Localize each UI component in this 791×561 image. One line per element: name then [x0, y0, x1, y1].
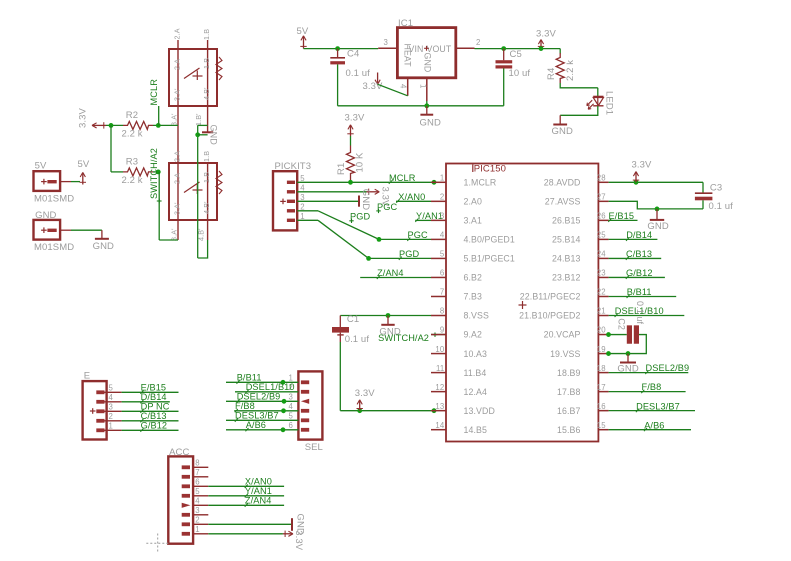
label IC1	[398, 18, 413, 29]
net label PGD (floating)	[349, 211, 370, 223]
svg-text:C1: C1	[347, 314, 359, 325]
svg-text:ACC: ACC	[169, 447, 189, 458]
svg-text:15.B6: 15.B6	[557, 425, 581, 435]
svg-text:24.B13: 24.B13	[552, 254, 580, 264]
svg-text:DSEL2/B9: DSEL2/B9	[237, 391, 281, 401]
value 0.1 uf	[345, 334, 370, 345]
svg-text:C/B13: C/B13	[626, 249, 652, 259]
PIC left pin names	[464, 178, 515, 435]
junction	[539, 46, 544, 51]
svg-text:4: 4	[440, 231, 445, 240]
svg-text:15: 15	[597, 421, 606, 430]
resistor R3	[123, 168, 153, 176]
svg-text:3: 3	[440, 212, 444, 221]
power 3.3V (rotated arrow)	[367, 187, 391, 208]
svg-text:16: 16	[597, 402, 606, 411]
net label Z/AN4	[245, 496, 272, 507]
pin numbers E	[109, 384, 114, 431]
PIC left pin stubs	[431, 182, 446, 429]
net label DSEL1/B10	[615, 306, 664, 317]
junction	[366, 256, 371, 261]
svg-text:PGC: PGC	[377, 202, 397, 212]
svg-text:20: 20	[597, 326, 606, 335]
svg-text:12: 12	[435, 383, 444, 392]
svg-text:Z/AN4: Z/AN4	[377, 268, 404, 278]
net label Y/AN1	[245, 486, 272, 497]
svg-text:SEL: SEL	[305, 442, 323, 453]
ground GND (rotated)	[359, 189, 371, 210]
pin wires SEL	[226, 382, 298, 430]
svg-text:0.1 uf: 0.1 uf	[346, 68, 371, 79]
net label G/B12	[626, 268, 653, 279]
wire R4 to LED1	[560, 83, 598, 96]
svg-text:F/B8: F/B8	[642, 382, 662, 392]
regulator IC1	[397, 28, 455, 78]
svg-text:23: 23	[597, 269, 606, 278]
wire	[609, 429, 691, 431]
junction	[655, 207, 660, 212]
junction	[606, 351, 611, 356]
value 2.2 k	[122, 175, 143, 186]
power 3.3V (VOUT)	[536, 28, 557, 48]
wire IC1 VOUT to 3.3V	[475, 48, 561, 50]
wire AVDD (pin28) to 3.3V / C3	[609, 182, 703, 193]
wire to R4	[559, 49, 561, 54]
svg-text:DSEL1/B10: DSEL1/B10	[246, 382, 295, 392]
svg-text:IC1: IC1	[398, 18, 413, 29]
junction	[335, 46, 340, 51]
net label MCLR	[389, 173, 416, 184]
svg-text:2: 2	[109, 412, 113, 421]
net label C/B13	[626, 249, 652, 260]
label C2 (rotated)	[617, 318, 627, 330]
svg-text:28: 28	[597, 174, 606, 183]
svg-text:GND: GND	[420, 118, 441, 129]
junction	[634, 180, 639, 185]
svg-text:2.A: 2.A	[173, 59, 182, 70]
svg-text:0.1 uf: 0.1 uf	[345, 334, 370, 345]
svg-text:5.B1/PGEC1: 5.B1/PGEC1	[464, 254, 515, 264]
svg-text:1: 1	[440, 174, 444, 183]
label M01SMD	[34, 194, 74, 205]
net label DESL3/B7	[636, 401, 680, 412]
svg-text:2.2 k: 2.2 k	[122, 129, 143, 140]
svg-text:R4: R4	[546, 68, 557, 80]
junction	[156, 170, 161, 175]
svg-text:B/B11: B/B11	[237, 372, 262, 382]
net label PGD	[399, 249, 420, 260]
svg-text:2: 2	[195, 516, 199, 525]
svg-text:PGD: PGD	[350, 211, 370, 221]
svg-text:0.1 uf: 0.1 uf	[709, 201, 734, 212]
value 0.1 uf	[709, 201, 734, 212]
power 3.3V (AVDD)	[632, 159, 653, 182]
connector SEL	[298, 371, 322, 439]
svg-text:GND: GND	[422, 53, 432, 73]
ground GND (AVSS)	[647, 209, 668, 232]
svg-text:20.VCAP: 20.VCAP	[544, 330, 581, 340]
junction	[424, 103, 429, 108]
svg-text:DP NC: DP NC	[141, 402, 170, 412]
wire PIC pin8 VSS to GND/C1	[340, 315, 431, 317]
svg-text:21: 21	[597, 307, 606, 316]
svg-text:1: 1	[195, 525, 199, 534]
wire	[609, 276, 665, 278]
net Y/AN1 wire (PIC pin3)	[415, 219, 431, 221]
resistor R1	[347, 146, 355, 183]
svg-text:9.A2: 9.A2	[464, 330, 483, 340]
svg-text:10.A3: 10.A3	[464, 349, 488, 359]
svg-text:10 K: 10 K	[355, 152, 366, 173]
svg-text:3.A': 3.A'	[170, 113, 179, 126]
pin wires E	[105, 392, 179, 430]
svg-text:18: 18	[597, 364, 606, 373]
svg-text:22: 22	[597, 288, 606, 297]
net X/AN0 wire	[208, 485, 284, 487]
junction	[348, 180, 353, 185]
svg-text:4.B': 4.B'	[202, 87, 211, 100]
svg-text:4.B0/PGED1: 4.B0/PGED1	[464, 235, 515, 245]
label R1 (rotated)	[336, 163, 347, 175]
svg-text:1.MCLR: 1.MCLR	[464, 178, 497, 188]
svg-text:2.A: 2.A	[173, 173, 182, 184]
capacitor C1	[332, 316, 349, 343]
net label Z/AN4	[377, 268, 404, 279]
wire	[106, 124, 123, 126]
net Z/AN4 wire	[208, 504, 284, 506]
ground GND symbol	[93, 230, 114, 252]
svg-text:3: 3	[195, 506, 199, 515]
svg-text:A/B6: A/B6	[644, 420, 664, 430]
net label PGC	[407, 230, 428, 241]
label C5	[510, 49, 522, 60]
pin labels S1	[170, 28, 212, 126]
pin numbers PICKIT3	[300, 174, 305, 221]
PIC right pin names	[519, 178, 580, 435]
svg-text:5V: 5V	[35, 161, 47, 172]
connector ACC	[168, 456, 193, 543]
svg-text:28.AVDD: 28.AVDD	[544, 178, 581, 188]
svg-text:X/AN0: X/AN0	[245, 477, 272, 487]
svg-text:5V: 5V	[297, 26, 309, 37]
net label F/B8	[641, 382, 661, 393]
svg-text:18.B9: 18.B9	[557, 368, 581, 378]
svg-text:E: E	[84, 371, 90, 382]
svg-text:3.3V: 3.3V	[293, 530, 304, 551]
connector 5V M01SMD	[34, 171, 61, 191]
junction	[377, 237, 382, 242]
svg-text:MCLR: MCLR	[389, 173, 416, 183]
svg-text:Z/AN4: Z/AN4	[245, 496, 272, 506]
net Y/AN1 wire	[208, 495, 284, 497]
svg-text:1.B: 1.B	[202, 58, 211, 69]
power 3.3V (left of R2)	[78, 107, 107, 128]
wire	[609, 315, 685, 317]
net X/AN0 wire (PIC pin2)	[396, 200, 431, 202]
PIC right pin numbers	[597, 174, 606, 430]
wire	[609, 295, 677, 297]
value 10 uf	[509, 68, 531, 79]
ground GND (LED1)	[552, 115, 573, 137]
label E	[84, 371, 90, 382]
value 0.1 uf (rotated)	[635, 301, 645, 325]
svg-text:SWITCH/A2: SWITCH/A2	[378, 333, 429, 343]
svg-text:13.VDD: 13.VDD	[464, 406, 495, 416]
wire PICKIT3 pin4 to 3.3V	[297, 191, 366, 193]
svg-text:F/B8: F/B8	[235, 401, 255, 411]
svg-text:2: 2	[476, 38, 480, 47]
junction	[156, 123, 161, 128]
svg-text:PGC: PGC	[408, 230, 428, 240]
wire C5 to gnd rail	[503, 69, 505, 106]
svg-text:G/B12: G/B12	[626, 268, 653, 278]
svg-text:3: 3	[109, 403, 113, 412]
wire	[609, 257, 662, 259]
power 3.3V (VDD)	[355, 388, 376, 411]
svg-text:A/B6: A/B6	[246, 420, 266, 430]
junction	[501, 46, 506, 51]
pin 1 IC1	[418, 78, 427, 101]
connector GND M01SMD	[34, 220, 61, 240]
label 5V	[35, 161, 47, 172]
wire	[609, 391, 686, 393]
junction	[109, 123, 114, 128]
svg-text:G/B12: G/B12	[141, 421, 168, 431]
wire PGD to PIC pin5	[369, 257, 431, 259]
svg-text:17.B8: 17.B8	[557, 387, 581, 397]
net labels SEL connector	[235, 372, 295, 431]
svg-text:13: 13	[435, 402, 444, 411]
svg-text:5: 5	[289, 412, 294, 421]
svg-text:E/B15: E/B15	[609, 211, 635, 221]
svg-text:24: 24	[597, 250, 606, 259]
svg-text:PICKIT3: PICKIT3	[275, 161, 312, 172]
svg-text:M01SMD: M01SMD	[34, 194, 74, 205]
svg-text:25: 25	[597, 231, 606, 240]
power 5V arrow	[78, 159, 90, 185]
label PICKIT3	[275, 161, 312, 172]
svg-text:R3: R3	[126, 157, 138, 168]
svg-text:4: 4	[399, 84, 408, 89]
svg-text:4: 4	[195, 497, 200, 506]
svg-text:C5: C5	[510, 49, 522, 60]
svg-text:GND: GND	[552, 126, 573, 137]
svg-text:5: 5	[195, 487, 200, 496]
label SEL	[305, 442, 323, 453]
svg-text:3.3V: 3.3V	[363, 81, 384, 92]
svg-text:GND: GND	[209, 125, 219, 146]
microcontroller PIC150 (U1)	[446, 164, 598, 442]
svg-text:10: 10	[435, 345, 444, 354]
junction	[432, 408, 437, 413]
svg-text:3.3V: 3.3V	[536, 28, 557, 39]
capacitor C3	[695, 193, 713, 209]
svg-text:27.AVSS: 27.AVSS	[545, 197, 581, 207]
power 5V (top)	[297, 26, 309, 49]
net label A/B6	[644, 420, 665, 431]
value 2.2 k	[122, 129, 143, 140]
svg-text:0.1 uf: 0.1 uf	[635, 301, 645, 325]
net labels E connector	[140, 383, 169, 432]
svg-text:22.B11/PGEC2: 22.B11/PGEC2	[520, 292, 581, 302]
net label SWITCH/A2 (PIC pin9)	[378, 333, 446, 344]
value 2.2 k (rotated)	[565, 60, 576, 81]
svg-text:D/B14: D/B14	[626, 230, 652, 240]
ground GND (VCAP/VSS)	[617, 354, 638, 375]
wire	[609, 219, 638, 221]
svg-text:Y/AN1: Y/AN1	[245, 486, 272, 496]
net MCLR wire (PICKIT3 pin5 to PIC pin1)	[297, 181, 431, 183]
svg-text:3.3V: 3.3V	[345, 113, 366, 124]
svg-text:6.B2: 6.B2	[464, 273, 483, 283]
svg-text:5: 5	[440, 250, 445, 259]
wire C2 to pin19 row	[609, 335, 647, 354]
wire LED1 to GND	[560, 106, 598, 115]
svg-text:2.A0: 2.A0	[464, 197, 483, 207]
ground GND (VSS)	[379, 316, 400, 338]
svg-text:6: 6	[440, 269, 444, 278]
wire PICKIT3 pin2 to PGC	[297, 211, 379, 240]
svg-text:19.VSS: 19.VSS	[550, 349, 580, 359]
wire PICKIT3 pin1 to PGD	[297, 220, 368, 258]
svg-text:GND: GND	[360, 189, 371, 210]
wire	[153, 124, 178, 126]
switch S1 (MCLR pushbutton)	[169, 49, 222, 106]
svg-text:1.B: 1.B	[202, 29, 211, 40]
svg-text:6: 6	[195, 478, 199, 487]
svg-text:GND: GND	[93, 241, 114, 252]
svg-text:HEAT: HEAT	[403, 44, 413, 68]
svg-text:26.B15: 26.B15	[552, 216, 580, 226]
wire 3.3V to R3	[111, 125, 123, 171]
junction	[357, 408, 362, 413]
svg-text:3.3V: 3.3V	[632, 159, 653, 170]
svg-text:8.VSS: 8.VSS	[464, 311, 489, 321]
net Z/AN4 wire (PIC pin6)	[360, 277, 431, 279]
ground GND (IC1)	[420, 106, 441, 129]
svg-text:C4: C4	[347, 48, 359, 59]
svg-text:6: 6	[289, 421, 293, 430]
pin labels S2	[170, 151, 212, 241]
svg-text:4.B': 4.B'	[202, 201, 211, 214]
switch S2 (SWITCH/A2 pushbutton)	[169, 163, 222, 220]
wire ACC pin1 to 3.3V	[208, 533, 283, 535]
wire PICKIT3 pin3 to GND	[297, 200, 358, 202]
label PIC150	[473, 164, 506, 175]
connector E	[83, 381, 107, 439]
svg-text:LED1: LED1	[604, 91, 615, 115]
svg-text:2.A: 2.A	[173, 28, 182, 39]
net label D/B14	[626, 230, 652, 241]
label C3	[710, 182, 722, 193]
wire 5V to IC1 VIN	[304, 48, 379, 50]
wire	[609, 372, 689, 374]
svg-text:16.B7: 16.B7	[557, 406, 581, 416]
wire gnd rail	[338, 105, 504, 107]
svg-text:7: 7	[440, 288, 444, 297]
ground GND (rotated)	[292, 514, 305, 535]
svg-text:3.3V: 3.3V	[355, 388, 376, 399]
svg-text:PIC150: PIC150	[474, 164, 506, 175]
svg-text:B/B11: B/B11	[627, 287, 652, 297]
svg-text:26: 26	[597, 212, 606, 221]
svg-text:14.B5: 14.B5	[464, 425, 488, 435]
svg-text:25.B14: 25.B14	[552, 235, 580, 245]
svg-text:R1: R1	[336, 163, 347, 175]
wire bus A vertical (switch pins 2.A/3.A)	[177, 40, 179, 240]
svg-text:7.B3: 7.B3	[464, 292, 483, 302]
net label Y/AN1	[415, 211, 443, 222]
svg-text:R2: R2	[126, 110, 138, 121]
svg-text:1.B: 1.B	[202, 172, 211, 183]
capacitor C5	[496, 49, 513, 69]
svg-text:11: 11	[436, 364, 444, 373]
svg-text:D/B14: D/B14	[141, 392, 167, 402]
value 10 K (rotated)	[355, 152, 366, 173]
wire VCAP (pin20) to C2	[609, 334, 627, 336]
svg-text:7: 7	[195, 468, 199, 477]
label C4	[347, 48, 359, 59]
svg-text:1.B: 1.B	[202, 151, 211, 162]
junction	[606, 332, 611, 337]
svg-text:2.2 k: 2.2 k	[565, 60, 576, 81]
ground GND (switch)	[202, 125, 219, 146]
svg-text:E/B15: E/B15	[141, 383, 167, 393]
PIC left pin numbers	[435, 174, 444, 430]
svg-text:8: 8	[195, 459, 199, 468]
wire ACC pin2 to GND	[208, 523, 291, 525]
svg-text:M01SMD: M01SMD	[34, 242, 74, 253]
net label PGC (floating)	[376, 202, 397, 213]
pin 4 IC1	[399, 78, 408, 96]
svg-text:C/B13: C/B13	[141, 411, 167, 421]
capacitor C2	[627, 325, 639, 343]
svg-text:19: 19	[597, 345, 606, 354]
svg-text:3.A1: 3.A1	[464, 216, 483, 226]
svg-text:9: 9	[440, 326, 444, 335]
svg-text:8: 8	[440, 307, 444, 316]
wire bus B vertical (switch pins 1.B/4.B)	[207, 40, 209, 240]
svg-text:C2: C2	[617, 318, 627, 330]
svg-text:2.2 k: 2.2 k	[122, 175, 143, 186]
svg-text:5: 5	[109, 384, 114, 393]
svg-text:1.B': 1.B'	[194, 113, 203, 126]
wire IC1 pin1 to gnd rail	[426, 101, 428, 106]
svg-text:SWITCH/A2: SWITCH/A2	[149, 148, 159, 199]
svg-text:1: 1	[418, 84, 427, 88]
svg-text:2.A: 2.A	[173, 151, 182, 162]
svg-text:27: 27	[597, 193, 606, 202]
svg-text:23.B12: 23.B12	[552, 273, 580, 283]
wire PGC to PIC pin4	[379, 238, 431, 240]
svg-text:MCLR: MCLR	[149, 79, 159, 106]
connector PICKIT3	[273, 171, 297, 230]
label R4 (rotated)	[546, 68, 557, 80]
label C1	[347, 314, 359, 325]
power 3.3V (rotated arrow)	[283, 530, 304, 551]
net label X/AN0	[396, 192, 425, 203]
pin 2 IC1	[456, 38, 481, 48]
label R2	[126, 110, 138, 121]
svg-text:3: 3	[289, 393, 293, 402]
svg-text:1: 1	[109, 422, 113, 431]
wire	[198, 134, 208, 136]
svg-text:12.A4: 12.A4	[464, 387, 488, 397]
net label B/B11	[627, 287, 652, 298]
wire AVSS (pin27) to GND	[609, 201, 703, 209]
svg-text:3: 3	[384, 38, 388, 47]
label LED1 (rotated)	[604, 91, 615, 115]
